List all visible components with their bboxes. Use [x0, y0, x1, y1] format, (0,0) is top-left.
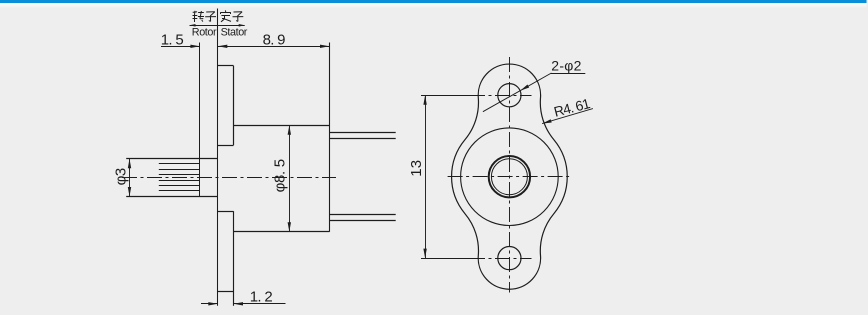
- svg-text:1. 2: 1. 2: [250, 288, 273, 305]
- svg-text:1. 5: 1. 5: [161, 32, 184, 49]
- svg-text:2-φ2: 2-φ2: [551, 58, 582, 74]
- svg-text:φ8. 5: φ8. 5: [272, 159, 289, 192]
- svg-text:Rotor: Rotor: [192, 27, 217, 39]
- svg-text:Stator: Stator: [221, 27, 248, 39]
- svg-text:φ3: φ3: [112, 168, 129, 185]
- svg-text:8. 9: 8. 9: [263, 32, 286, 49]
- svg-text:13: 13: [408, 160, 425, 177]
